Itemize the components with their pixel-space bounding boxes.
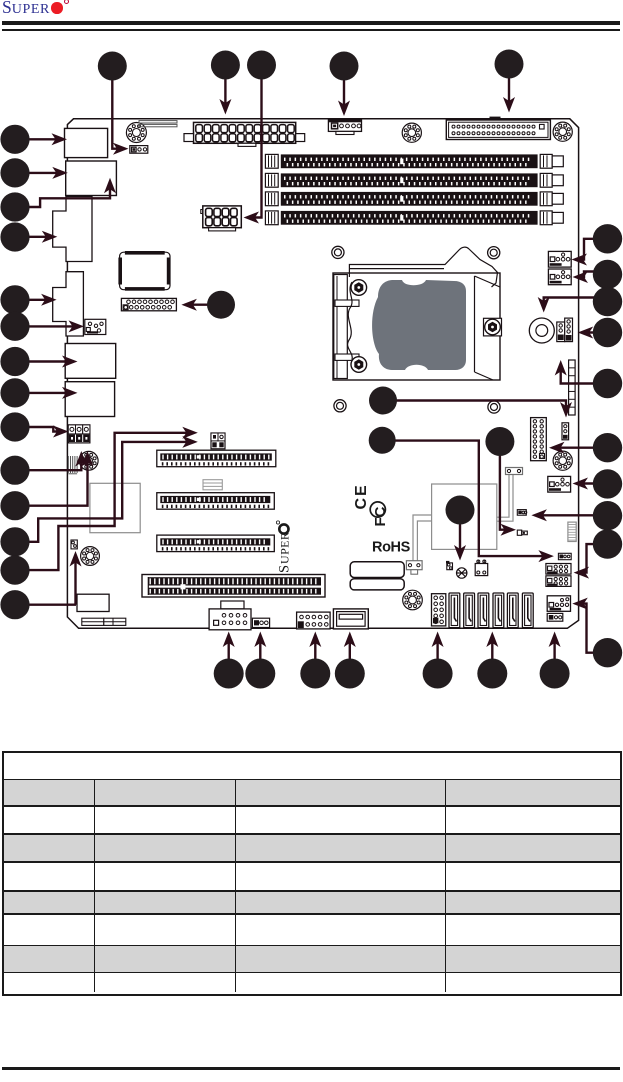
CPU socket lever [349,247,497,287]
callout line L14 [15,604,76,606]
svg-text:RoHS: RoHS [372,540,411,556]
callout bullet L1 [0,125,29,154]
motherboard outline [67,119,578,629]
rear I/O box 1 [65,128,108,157]
SATA port 3 [493,593,504,628]
callout line L8 [15,392,73,394]
svg-text:CE: CE [353,483,370,509]
silkscreen stripe block [203,480,222,490]
fan header FAN8 symbol [553,451,572,470]
callout bullet L6 [0,312,29,341]
callout bullet B5 [423,659,453,689]
SATA port 1 [464,593,475,628]
8-pin CPU power connector JPW2 [203,206,242,228]
callout line L12 [13,442,193,542]
callout bullet R2 [593,260,622,289]
COM port header [209,609,251,630]
jumper pair JD1/JPS [557,322,565,342]
CPU socket screw hole (top left) [332,246,344,258]
table v-line 1 [94,779,96,992]
callout line L4 [15,236,53,238]
callout line L5 [15,299,52,301]
callout line L11 [15,456,88,506]
LAN port 1 [65,344,116,379]
fan header FAN4 (left) [79,451,98,470]
PCH outline box [432,484,497,549]
callout bullet L9 [0,412,29,441]
SATA port 2 [478,593,489,628]
callout bullet R7 [593,469,622,498]
callout line L7 [15,360,73,362]
table h-line 5 [3,890,620,892]
CPU socket load plate bracket [334,275,348,379]
callout bullet L14 [0,590,29,619]
table outer border [2,751,622,996]
table gray row 3 [4,892,620,913]
fan header FAN1 (top left) [126,123,146,143]
callout line T5 [508,64,510,108]
callout line B2 [259,636,261,674]
top rule thin [2,29,620,31]
table gray row 2 [4,835,620,861]
small tables (bottom left) [82,618,104,625]
PCIe slot 2 [157,493,274,510]
table h-line 8 [3,972,620,974]
callout bullet R10 [593,638,622,667]
CPU socket screw bracket (right) [484,318,502,336]
SPI header [558,553,571,559]
fan header FAN9 [548,476,571,492]
table v-line 2 [235,779,237,992]
callout bullet L5 [0,285,29,314]
callout line L10 [15,456,81,471]
table h-line 6 [3,913,620,915]
header 2x5 (bottom) [297,612,331,629]
component bd (left) [71,540,77,549]
callout bullet I1 [207,291,235,319]
svg-text:S: S [277,565,293,573]
TPM header JTPM [121,298,176,310]
buzzer SP1 [529,318,554,343]
callout line T3 [248,65,262,218]
callout line B7 [553,636,555,674]
callout bullet B2 [245,659,275,689]
SATA port 5 [522,593,533,628]
CPU socket screw hole (bottom left) [334,400,346,412]
callout line R9 [578,544,608,573]
callout line B6 [491,636,493,674]
DIMM slot 4 [265,211,278,225]
USB header (bottom right) [547,596,570,612]
jumper JPB (3-pin, top left) [130,146,148,154]
callout bullet I2 [369,387,397,415]
speaker header SPKR [475,564,488,576]
SATA port 0 [449,593,460,628]
header JWD (3-pin vertical) [562,423,569,440]
callout line R5 [561,365,608,384]
table h-line 1 [3,779,620,781]
callout bullet L2 [0,158,29,187]
callout bullet L12 [0,527,29,556]
IDE connector (top right) [446,120,550,140]
ATX 24-pin power connector JPW1 [194,122,296,143]
callout line L6 [15,325,80,327]
fan header FAN7 [548,269,571,285]
rear I/O stepped stack 1 [53,197,92,262]
bracket lines by FAN1 [139,121,177,123]
front panel header JF1 [531,418,547,461]
SUPERMICRO logo [2,0,50,18]
COM header tab [221,601,244,609]
rounded box 2 [350,579,404,590]
callout line R8 [536,514,608,516]
callout bullet R1 [593,224,622,253]
CPU socket frame [333,273,500,380]
SATA port 4 [507,593,518,628]
DIMM slot 1 [265,154,278,168]
callout bullet T4 [330,52,359,81]
callout bullet L7 [0,347,29,376]
notch on top edge [490,117,501,120]
table h-line 7 [3,945,620,947]
BMC chip [120,252,170,290]
callout bullet T3 [247,51,276,80]
callout line R7 [577,482,608,484]
CPU socket screw (bottom left) [351,357,367,373]
LED DLED [457,568,467,578]
rear I/O box 2 [66,161,117,196]
chipset outline box (left) [90,483,140,532]
callout bullet R4 [593,318,622,347]
callout bullet I3 [369,427,396,454]
callout line B4 [349,636,351,674]
CPU socket screw hole (bottom right) [488,401,500,413]
callout line L2 [15,172,63,174]
callout bullet R8 [593,501,622,530]
callout bullet L8 [0,378,29,407]
battery [568,522,576,541]
callout bullet B1 [214,659,244,689]
PCI slot [142,575,325,598]
fan header FAN5 (left) [81,547,100,566]
header JPG1 (by I/O stack) [85,319,106,334]
callout bullet T5 [495,50,524,79]
callout line I2 (CPU) [383,401,566,414]
callout bullet R6 [593,433,622,462]
callout line L1 [15,138,63,140]
callout line T1 [112,66,124,149]
table h-line 2 [3,805,620,807]
CPU socket right wing [475,276,501,380]
CPU socket cover (gray) [372,280,466,370]
callout line R4 [582,331,608,333]
callout line I4 [500,442,512,530]
callout bullet L4 [0,222,29,251]
callout line R10 [577,604,608,653]
table h-line 4 [3,861,620,863]
callout line L3 [15,182,110,207]
PCIe slot 3 [157,535,274,552]
connector JWOL (top) [328,120,361,131]
callout bullet R5 [593,369,622,398]
USB header stack 1 [546,564,571,575]
pin strip (right edge) [569,360,576,415]
jumper block JP (2x2) [211,433,225,449]
callout bullet T1 [98,52,127,81]
callout line R3 [544,298,608,309]
CPU socket screw (right) [485,319,501,335]
callout line T2 [224,65,226,110]
USB header stack 2 [546,576,571,587]
callout line R1 [576,239,608,260]
box NVRAM [77,594,109,611]
transistor pair [447,563,453,570]
callout bullet T2 [211,51,240,80]
table gray row 1 [4,780,620,805]
logo red dot [51,2,63,14]
bottom rule [2,1067,620,1070]
fan header FAN3 (top right) [553,122,572,141]
table h-line 3 [3,833,620,835]
PCH standoff trace left [413,515,432,561]
callout bullet I4 [485,427,514,456]
callout line L13 [13,433,193,570]
callout bullet L13 [0,556,29,585]
table v-line 3 [445,779,447,992]
callout line B1 [227,636,229,674]
callout bullet B4 [335,659,365,689]
callout bullet L11 [0,491,29,520]
callout bullet B3 [300,659,330,689]
rounded box 1 [350,562,404,578]
CE mark [353,483,370,509]
callout bullet R9 [593,529,622,558]
callout line T4 [343,65,345,112]
callout line I1 (TPM) [186,304,221,306]
table gray row 4 [4,946,620,971]
SUPERO vertical logo [276,521,292,573]
FCC mark [372,506,389,526]
svg-text:UPER: UPER [278,532,292,564]
LAN port 2 [65,382,114,417]
DIMM slot 2 [265,173,278,187]
component pq [517,530,521,535]
jumper JPT1 (3-pin) [517,510,526,516]
callout bullet L10 [0,456,29,485]
jumper block JPL/JPV [68,425,90,443]
jumper (3-pin bottom right) [547,613,563,621]
USB port (bottom, type A) [333,609,368,629]
fan header FAN6 [548,251,571,267]
callout line I5 (PCH) [459,510,461,556]
callout line R6 [554,447,608,449]
callout line R2 [577,272,608,278]
callout line B3 [314,636,316,674]
callout bullet I5 [446,496,475,525]
rear I/O stepped stack 2 [53,272,84,336]
PCIe slot 1 [157,450,276,467]
CPU socket screw (top left) [351,280,367,296]
callout bullet B7 [540,659,570,689]
front panel header (2x5 by SATA) [432,594,446,626]
CPU socket screw hole (top right) [488,247,500,259]
fan header FANA [403,590,423,610]
barcode [67,456,69,473]
DIMM slot 3 [265,192,278,206]
motherboard layout diagram [0,0,623,700]
callout bullet B6 [477,659,507,689]
callout bullet R3 [593,287,622,316]
logo register mark [64,0,69,4]
callout line I3 [382,441,549,556]
callout line B5 [436,636,438,674]
PCH standoff trace right [497,475,513,522]
callout line L9 [15,427,64,432]
fan header FAN2 (top) [402,123,421,142]
jumper (3-pin, by COM) [252,618,269,627]
callout bullet L3 [0,192,29,221]
top rule thick [2,21,620,25]
